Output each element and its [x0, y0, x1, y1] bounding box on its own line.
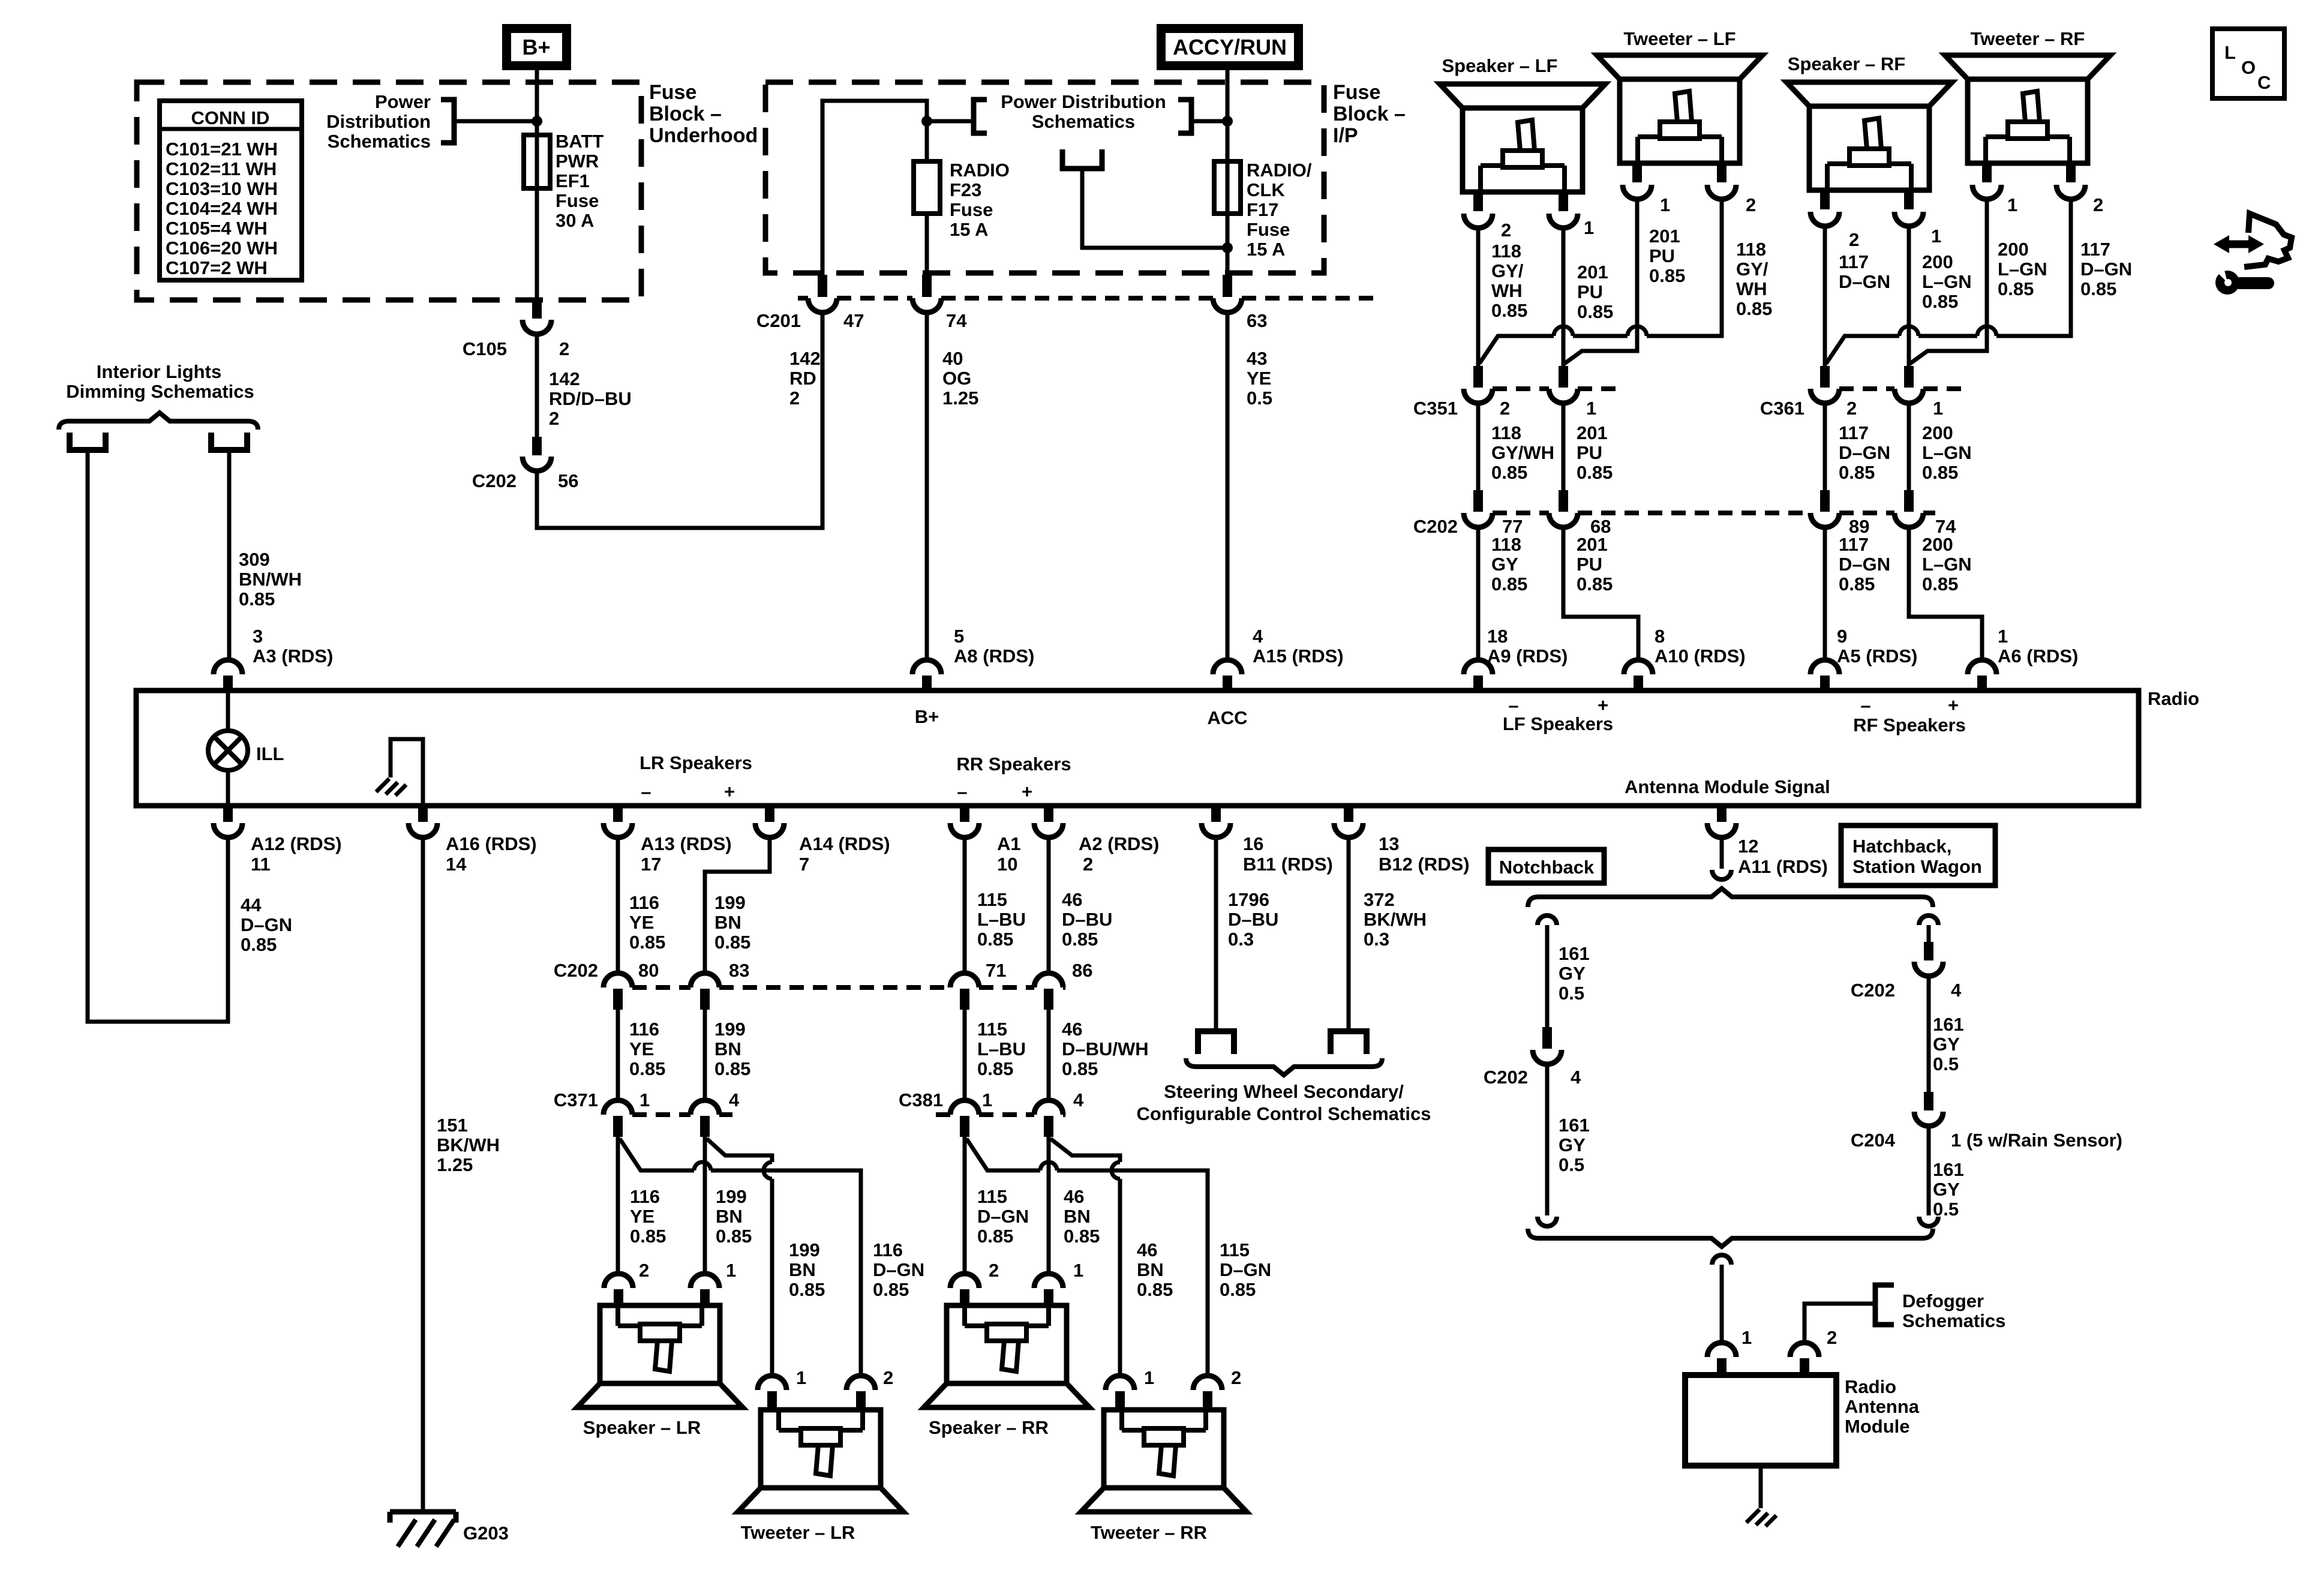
ground G203	[390, 1512, 456, 1523]
svg-text:7: 7	[799, 854, 809, 875]
svg-text:201: 201	[1577, 262, 1608, 283]
svg-text:PU: PU	[1577, 281, 1603, 302]
svg-text:Speaker – LR: Speaker – LR	[583, 1417, 701, 1438]
svg-text:0.85: 0.85	[1649, 265, 1685, 286]
svg-text:–: –	[641, 781, 651, 802]
svg-text:0.85: 0.85	[1922, 291, 1958, 312]
svg-text:PU: PU	[1577, 442, 1602, 463]
svg-text:0.85: 0.85	[977, 929, 1013, 950]
svg-text:15 A: 15 A	[1247, 239, 1285, 260]
svg-text:D–GN: D–GN	[1220, 1259, 1271, 1280]
svg-text:B+: B+	[522, 35, 550, 59]
wire 142 RD/D-BU	[535, 334, 539, 438]
wire tweeter LF pin1 to C351-1	[1565, 199, 1637, 364]
svg-text:C202: C202	[554, 960, 598, 981]
svg-text:BN: BN	[789, 1259, 816, 1280]
wire C371-4 branch to tweeter LR pin1 with hop over	[707, 1139, 772, 1162]
svg-text:RADIO/: RADIO/	[1247, 160, 1312, 181]
svg-text:C381: C381	[899, 1089, 943, 1110]
svg-text:0.85: 0.85	[714, 932, 750, 953]
svg-text:0.85: 0.85	[1064, 1226, 1100, 1247]
wire 372 BK/WH B12 to steering	[1347, 837, 1351, 1030]
svg-text:142: 142	[789, 348, 821, 369]
wire 43 YE to radio A15	[1226, 313, 1230, 660]
svg-text:Module: Module	[1845, 1416, 1910, 1437]
antenna bottom brace	[1528, 1229, 1933, 1247]
svg-text:80: 80	[638, 960, 659, 981]
svg-text:1: 1	[1073, 1260, 1083, 1281]
right bracket	[1178, 100, 1191, 133]
svg-text:L–GN: L–GN	[1922, 442, 1972, 463]
svg-text:Schematics: Schematics	[328, 131, 431, 152]
svg-text:Antenna Module Signal: Antenna Module Signal	[1625, 776, 1830, 797]
C201 pin 74	[922, 275, 932, 297]
svg-text:200: 200	[1998, 239, 2029, 260]
wire 117 D-GN to A5	[1823, 527, 1827, 660]
wire C381-1 to speaker RR pin2	[963, 1137, 967, 1274]
svg-text:C361: C361	[1760, 398, 1804, 419]
svg-text:74: 74	[946, 310, 967, 331]
svg-text:C105: C105	[463, 338, 507, 359]
svg-text:0.5: 0.5	[1559, 1154, 1584, 1175]
svg-text:0.5: 0.5	[1247, 388, 1272, 409]
svg-text:116: 116	[629, 1019, 659, 1040]
svg-text:C351: C351	[1413, 398, 1458, 419]
connector C202 pin 4 notchback	[1542, 1027, 1552, 1049]
dimming brace	[59, 413, 258, 430]
svg-text:86: 86	[1072, 960, 1092, 981]
svg-text:Speaker – RF: Speaker – RF	[1788, 53, 1905, 74]
svg-text:0.5: 0.5	[1933, 1053, 1959, 1074]
wire B+ down through fuse	[535, 70, 539, 318]
tweeter RR	[1106, 1376, 1134, 1390]
svg-text:A5 (RDS): A5 (RDS)	[1837, 646, 1917, 667]
radio pin A10	[1624, 660, 1653, 674]
wire brace to antenna module	[1712, 1255, 1731, 1265]
steering connector B11	[1198, 1031, 1234, 1054]
svg-text:116: 116	[629, 892, 659, 913]
svg-text:Speaker – RR: Speaker – RR	[929, 1417, 1049, 1438]
svg-text:D–BU: D–BU	[1062, 909, 1112, 930]
svg-text:BN: BN	[1064, 1206, 1091, 1227]
svg-text:GY: GY	[1559, 1134, 1586, 1155]
svg-text:L–GN: L–GN	[1998, 259, 2047, 280]
svg-text:0.85: 0.85	[977, 1226, 1013, 1247]
svg-text:F23: F23	[950, 179, 981, 200]
wire speaker LF pin2 down	[1476, 228, 1481, 368]
svg-text:14: 14	[446, 854, 467, 875]
antenna module pin 2	[1790, 1343, 1819, 1357]
svg-text:5: 5	[954, 626, 964, 647]
svg-text:116: 116	[630, 1186, 660, 1207]
svg-text:D–GN: D–GN	[241, 914, 292, 935]
wire 201 PU to A10	[1563, 527, 1638, 660]
svg-text:C104=24 WH: C104=24 WH	[166, 198, 278, 219]
svg-text:117: 117	[1839, 422, 1869, 443]
svg-text:WH: WH	[1736, 278, 1767, 299]
svg-text:Fuse: Fuse	[556, 190, 599, 211]
node below F17	[1222, 242, 1233, 253]
svg-text:C101=21 WH: C101=21 WH	[166, 139, 278, 160]
svg-text:L–BU: L–BU	[977, 1038, 1026, 1059]
svg-text:RR Speakers: RR Speakers	[956, 754, 1071, 775]
svg-text:BN: BN	[716, 1206, 743, 1227]
svg-text:2: 2	[1827, 1327, 1837, 1348]
svg-text:C105=4 WH: C105=4 WH	[166, 218, 268, 239]
wire 116 YE A13 to C202-80	[616, 837, 620, 972]
svg-text:199: 199	[716, 1186, 747, 1207]
svg-text:BATT: BATT	[556, 131, 603, 152]
svg-text:161: 161	[1559, 943, 1590, 964]
svg-text:A10 (RDS): A10 (RDS)	[1655, 646, 1746, 667]
steering brace	[1186, 1058, 1382, 1075]
svg-text:Radio: Radio	[1845, 1376, 1896, 1397]
svg-text:0.85: 0.85	[1736, 298, 1772, 319]
tweeter LF pin 2	[1717, 163, 1727, 182]
radio pin B11	[1211, 806, 1221, 822]
wire C371-1 branch to tweeter LR pin2 with hop	[620, 1139, 694, 1170]
svg-text:D–BU/WH: D–BU/WH	[1062, 1038, 1149, 1059]
connector C351	[1493, 386, 1549, 391]
svg-text:0.85: 0.85	[1839, 574, 1875, 595]
svg-text:30 A: 30 A	[556, 210, 594, 231]
svg-text:A16 (RDS): A16 (RDS)	[446, 833, 537, 854]
node junction on B+ feed	[532, 116, 542, 127]
svg-text:161: 161	[1933, 1014, 1964, 1035]
svg-text:117: 117	[1839, 534, 1869, 555]
svg-text:RADIO: RADIO	[950, 160, 1010, 181]
wire 161 GY notchback lower	[1545, 1064, 1550, 1215]
svg-text:1.25: 1.25	[942, 388, 978, 409]
fuse EF1 BATT PWR 30A	[524, 135, 550, 188]
svg-text:0.85: 0.85	[1491, 462, 1527, 483]
radio pin A9	[1464, 660, 1493, 674]
svg-text:–: –	[1508, 695, 1518, 716]
fuse block I/P dashed box	[765, 82, 1324, 273]
svg-text:118: 118	[1736, 239, 1766, 260]
svg-text:L–GN: L–GN	[1922, 554, 1972, 575]
svg-text:GY/WH: GY/WH	[1491, 442, 1554, 463]
svg-text:1: 1	[1933, 398, 1943, 419]
svg-text:Hatchback,: Hatchback,	[1852, 836, 1951, 857]
svg-text:YE: YE	[629, 1038, 654, 1059]
svg-text:Tweeter – LF: Tweeter – LF	[1623, 28, 1736, 49]
svg-text:0.85: 0.85	[1839, 462, 1875, 483]
speaker RR	[950, 1274, 979, 1288]
svg-text:0.85: 0.85	[2080, 278, 2116, 299]
svg-text:C371: C371	[554, 1089, 598, 1110]
svg-text:C106=20 WH: C106=20 WH	[166, 238, 278, 259]
wire C381-1 branch to tweeter RR pin2 with hop	[966, 1139, 1040, 1170]
svg-text:Block –: Block –	[1333, 103, 1406, 125]
radio pin A13	[613, 806, 623, 822]
svg-text:D–GN: D–GN	[873, 1259, 924, 1280]
antenna module ground	[1759, 1466, 1763, 1508]
svg-text:BN: BN	[714, 912, 741, 933]
hatchback station wagon box	[1841, 825, 1995, 885]
svg-text:D–GN: D–GN	[1839, 554, 1890, 575]
svg-text:118: 118	[1491, 241, 1521, 262]
svg-text:RF Speakers: RF Speakers	[1853, 715, 1966, 736]
svg-text:9: 9	[1837, 626, 1847, 647]
svg-text:201: 201	[1577, 534, 1608, 555]
svg-text:A1: A1	[997, 833, 1021, 854]
svg-text:RD/D–BU: RD/D–BU	[549, 388, 632, 409]
svg-text:Power Distribution: Power Distribution	[1001, 91, 1166, 112]
wire C381-4 to speaker RR pin1	[1047, 1137, 1051, 1274]
svg-text:Defogger: Defogger	[1902, 1290, 1984, 1311]
svg-text:Tweeter – LR: Tweeter – LR	[741, 1522, 855, 1543]
radio pin A16	[418, 806, 428, 822]
svg-text:309: 309	[239, 549, 270, 570]
svg-text:A15 (RDS): A15 (RDS)	[1253, 646, 1344, 667]
svg-text:Notchback: Notchback	[1499, 857, 1595, 878]
radio box	[136, 691, 2139, 806]
antenna top brace	[1528, 888, 1933, 907]
svg-text:117: 117	[1839, 251, 1869, 272]
svg-text:BN: BN	[714, 1038, 741, 1059]
wire C371-4 to speaker LR pin1	[703, 1137, 707, 1274]
svg-text:1: 1	[1742, 1327, 1752, 1348]
wire 115 L-BU A1 to C202-71	[963, 837, 967, 972]
svg-text:Speaker – LF: Speaker – LF	[1442, 55, 1558, 76]
svg-text:Station Wagon: Station Wagon	[1852, 856, 1982, 877]
svg-text:Steering Wheel Secondary/: Steering Wheel Secondary/	[1164, 1081, 1404, 1102]
svg-text:201: 201	[1649, 226, 1680, 247]
svg-text:2: 2	[989, 1260, 999, 1281]
wire 46 D-BU/WH C202 to C381-4	[1047, 1010, 1051, 1100]
svg-text:GY: GY	[1933, 1034, 1960, 1055]
svg-text:GY: GY	[1933, 1179, 1960, 1200]
radio pin A11	[1717, 806, 1727, 822]
svg-text:A11 (RDS): A11 (RDS)	[1738, 856, 1828, 877]
svg-text:0.85: 0.85	[1577, 574, 1613, 595]
bracket to power distribution	[441, 100, 454, 143]
connector C202 pin 4 hatchback	[1924, 942, 1933, 960]
svg-text:Interior Lights: Interior Lights	[97, 361, 221, 382]
svg-text:Fuse: Fuse	[1247, 219, 1290, 240]
svg-text:0.3: 0.3	[1364, 929, 1389, 950]
svg-text:C103=10 WH: C103=10 WH	[166, 178, 278, 199]
svg-text:ILL: ILL	[256, 743, 284, 764]
svg-text:115: 115	[977, 1019, 1007, 1040]
svg-text:D–GN: D–GN	[977, 1206, 1029, 1227]
svg-text:116: 116	[873, 1239, 903, 1260]
connector C202 lower row	[632, 985, 690, 990]
wire 199 BN A14 to C202-83	[705, 837, 770, 972]
svg-text:A12 (RDS): A12 (RDS)	[251, 833, 342, 854]
svg-text:CONN ID: CONN ID	[191, 107, 270, 128]
svg-text:–: –	[1860, 695, 1870, 716]
svg-text:2: 2	[1846, 398, 1857, 419]
wire bracket to B+ feed	[454, 119, 537, 124]
svg-text:GY/: GY/	[1736, 259, 1768, 280]
svg-text:13: 13	[1379, 833, 1399, 854]
wire 118 GY/WH C351 to C202	[1476, 403, 1481, 491]
svg-text:Underhood: Underhood	[649, 124, 758, 147]
wire speaker LF pin1 down	[1562, 228, 1566, 368]
svg-text:0.85: 0.85	[1491, 300, 1527, 321]
svg-text:Radio: Radio	[2148, 688, 2199, 709]
svg-text:0.85: 0.85	[716, 1226, 752, 1247]
svg-text:10: 10	[997, 854, 1017, 875]
radio antenna module box	[1685, 1375, 1836, 1466]
wire pin2 to defogger	[1804, 1304, 1875, 1343]
svg-text:17: 17	[641, 854, 661, 875]
wire 115 L-BU C202 to C381-1	[963, 1010, 967, 1100]
connector C204 pin 1	[1924, 1092, 1933, 1110]
wire 199 BN C202 to C371-4	[703, 1010, 707, 1100]
speaker LR	[604, 1274, 633, 1288]
power symbol ACCY/RUN	[1157, 24, 1303, 70]
wire 309 BN/WH to A3	[227, 451, 232, 660]
C201 pin 47	[818, 275, 827, 297]
svg-text:C202: C202	[1851, 980, 1895, 1001]
svg-text:PWR: PWR	[556, 151, 599, 172]
svg-text:0.85: 0.85	[1577, 462, 1613, 483]
svg-text:1: 1	[1586, 398, 1596, 419]
notchback branch start	[1538, 915, 1557, 925]
svg-text:201: 201	[1577, 422, 1608, 443]
svg-text:+: +	[724, 781, 735, 802]
svg-text:CLK: CLK	[1247, 179, 1285, 200]
wire 200 L-GN C361 to C202	[1907, 403, 1911, 491]
svg-text:0.85: 0.85	[239, 589, 275, 610]
svg-text:A3 (RDS): A3 (RDS)	[253, 646, 333, 667]
svg-text:LR Speakers: LR Speakers	[639, 752, 752, 773]
connector C371	[632, 1112, 690, 1117]
svg-text:C202: C202	[1413, 516, 1458, 537]
svg-text:199: 199	[714, 892, 746, 913]
svg-text:BK/WH: BK/WH	[1364, 909, 1427, 930]
wire speaker RF pin2 down	[1823, 226, 1827, 368]
svg-text:GY: GY	[1491, 554, 1518, 575]
svg-text:Fuse: Fuse	[649, 81, 696, 104]
svg-text:2: 2	[2093, 194, 2103, 215]
tweeter LF pin 1	[1632, 163, 1642, 182]
svg-text:2: 2	[1500, 398, 1510, 419]
radio pin A15	[1213, 660, 1242, 674]
svg-text:PU: PU	[1649, 245, 1675, 266]
svg-text:4: 4	[1571, 1067, 1581, 1088]
svg-text:2: 2	[789, 388, 800, 409]
svg-text:Dimming Schematics: Dimming Schematics	[66, 381, 254, 402]
svg-text:RD: RD	[789, 368, 816, 389]
svg-text:Power: Power	[375, 91, 431, 112]
svg-text:A13 (RDS): A13 (RDS)	[641, 833, 732, 854]
svg-text:200: 200	[1922, 534, 1953, 555]
antenna module pin 1	[1707, 1343, 1736, 1357]
tweeter RF pin 1	[1982, 163, 1992, 182]
wire speaker RF pin1 down	[1907, 226, 1911, 368]
svg-text:12: 12	[1738, 836, 1758, 857]
svg-text:11: 11	[251, 854, 271, 875]
fuse block underhood dashed box	[137, 82, 641, 300]
svg-text:Fuse: Fuse	[1333, 81, 1380, 104]
svg-text:ACC: ACC	[1207, 707, 1247, 728]
svg-text:C202: C202	[1484, 1067, 1528, 1088]
svg-text:16: 16	[1243, 833, 1263, 854]
svg-text:D–GN: D–GN	[1839, 442, 1890, 463]
wire C202-56 down and right to C201-47	[537, 313, 822, 528]
svg-text:–: –	[957, 781, 967, 802]
svg-text:2: 2	[1746, 194, 1756, 215]
svg-text:0.85: 0.85	[1137, 1279, 1173, 1300]
svg-text:83: 83	[729, 960, 749, 981]
svg-text:0.85: 0.85	[629, 1058, 665, 1079]
svg-text:A14 (RDS): A14 (RDS)	[799, 833, 890, 854]
svg-text:4: 4	[729, 1089, 740, 1110]
svg-text:0.85: 0.85	[873, 1279, 909, 1300]
C201 pin 63	[1223, 275, 1232, 297]
wire 117 D-GN C361 to C202	[1823, 403, 1827, 491]
svg-text:C: C	[2257, 72, 2271, 93]
wire A16 to G203	[421, 837, 425, 1511]
svg-text:199: 199	[789, 1239, 820, 1260]
svg-text:+: +	[1598, 695, 1608, 716]
svg-text:GY/: GY/	[1491, 260, 1524, 281]
wire 47 riser to F23 feed	[822, 101, 927, 276]
svg-text:199: 199	[714, 1019, 746, 1040]
ILL lamp	[226, 693, 230, 806]
svg-text:1: 1	[639, 1089, 650, 1110]
wire 161 GY hatchback	[1927, 976, 1931, 1092]
radio pin A2	[1044, 806, 1053, 822]
svg-text:118: 118	[1491, 422, 1521, 443]
svg-text:1: 1	[726, 1260, 736, 1281]
svg-text:Fuse: Fuse	[950, 199, 993, 220]
svg-text:46: 46	[1062, 1019, 1082, 1040]
svg-text:0.85: 0.85	[1062, 929, 1098, 950]
steering connector B12	[1331, 1031, 1367, 1054]
svg-text:372: 372	[1364, 889, 1395, 910]
svg-text:0.85: 0.85	[1577, 301, 1613, 322]
wire C371-1 to speaker LR pin2	[616, 1137, 620, 1274]
left bracket	[974, 100, 987, 133]
svg-text:2: 2	[1849, 229, 1859, 250]
svg-text:0.85: 0.85	[630, 1226, 666, 1247]
svg-text:56: 56	[558, 470, 578, 491]
svg-text:8: 8	[1655, 626, 1665, 647]
speaker LF pin 1	[1559, 192, 1568, 211]
svg-text:0.85: 0.85	[714, 1058, 750, 1079]
connector C201 dashed row	[798, 296, 808, 301]
speaker LF pin 2	[1473, 192, 1483, 211]
wire tweeter RF pin2 to C361-2 with hops	[1996, 199, 2071, 336]
svg-text:161: 161	[1933, 1159, 1964, 1180]
svg-text:L–BU: L–BU	[977, 909, 1026, 930]
wire F23 to C201-74	[925, 214, 929, 276]
svg-text:YE: YE	[629, 912, 654, 933]
svg-text:118: 118	[1491, 534, 1521, 555]
cup symbol under power distribution	[1062, 149, 1102, 169]
svg-text:0.85: 0.85	[1922, 574, 1958, 595]
wire A11 down to brace	[1720, 837, 1724, 869]
svg-text:I/P: I/P	[1333, 124, 1358, 147]
wire tweeter LF pin2 to C351-2 with hops	[1647, 199, 1722, 336]
svg-text:C201: C201	[756, 310, 801, 331]
notchback box	[1488, 849, 1604, 883]
svg-text:GY: GY	[1559, 963, 1586, 984]
svg-text:2: 2	[1231, 1367, 1241, 1388]
radio pin A5	[1810, 660, 1839, 674]
svg-text:C102=11 WH: C102=11 WH	[166, 158, 277, 179]
svg-text:A2 (RDS): A2 (RDS)	[1079, 833, 1159, 854]
svg-text:1: 1	[1584, 217, 1594, 238]
connector C361	[1839, 386, 1894, 391]
svg-text:2: 2	[549, 408, 559, 429]
fuse RADIO/CLK F17 15A	[1214, 161, 1241, 214]
